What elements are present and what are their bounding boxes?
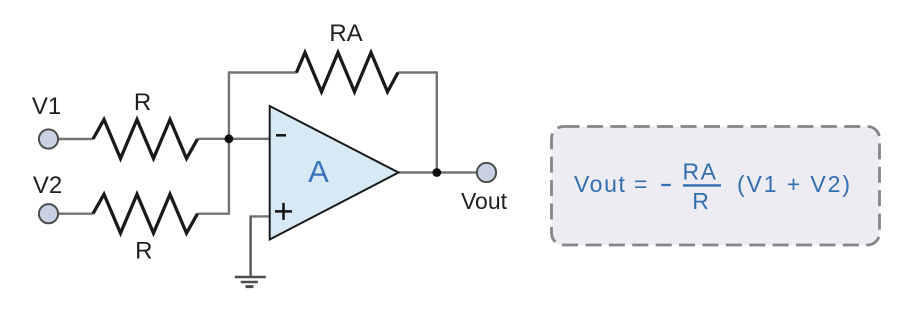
wire: V1 terminal to R lead (58, 138, 93, 140)
svg-text:Vout: Vout (461, 188, 508, 214)
node: summing junction dot (225, 134, 234, 143)
terminal V2 (39, 204, 58, 223)
resistor RA (feedback resistor) (297, 53, 399, 92)
svg-text:V2: V2 (33, 172, 62, 199)
wire: V2 R output to summing node vertical (198, 212, 231, 214)
resistor R1 (V1 input resistor) (93, 120, 198, 159)
terminal V1 (39, 129, 58, 148)
svg-text:R: R (135, 238, 152, 265)
svg-text:R: R (134, 89, 151, 116)
wire: summing node vertical riser (228, 73, 230, 214)
svg-text:R: R (692, 188, 709, 214)
svg-text:=: = (634, 171, 647, 197)
terminal Vout (477, 163, 496, 182)
wire: feedback right vertical drop to output node (436, 71, 438, 172)
svg-text:RA: RA (683, 159, 718, 185)
wire: V1 R output to inverting input (through summing node) (198, 138, 271, 140)
svg-text:(V1 + V2): (V1 + V2) (737, 171, 852, 197)
op-amp U1 non-inverting pin mark (+) (275, 203, 292, 220)
svg-text:Vout: Vout (574, 171, 626, 197)
svg-text:A: A (308, 154, 329, 189)
svg-text:RA: RA (329, 20, 362, 47)
op-amp U1 inverting pin mark (-) (276, 134, 286, 137)
wire: non-inverting input stub (250, 215, 271, 217)
resistor R2 (V2 input resistor) (93, 194, 198, 233)
wire: V2 terminal to R lead (58, 212, 93, 214)
wire: ground drop (249, 216, 251, 276)
formula box (552, 127, 880, 246)
formula minus sign (661, 184, 671, 186)
op-amp U1 triangle (270, 106, 399, 240)
wire: op-amp output to Vout terminal (399, 171, 478, 173)
node: output junction dot (432, 168, 441, 177)
svg-text:V1: V1 (32, 93, 61, 120)
formula fraction bar (683, 184, 721, 186)
ground symbol (235, 277, 266, 287)
wire: feedback top right segment (398, 71, 437, 73)
wire: feedback top left segment (228, 71, 297, 73)
